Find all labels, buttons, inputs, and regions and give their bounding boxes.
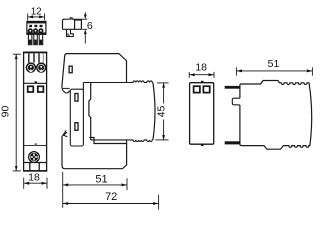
mid separation line [24,82,47,84]
svg-text:51: 51 [95,173,107,185]
front view outline [24,52,47,171]
dimension 6 line + arrows [84,12,86,15]
base top arm outline [62,54,127,87]
dimension 51 line + arrows [63,184,127,186]
dimension 72 right extension tick [158,195,160,210]
spine slot 1 [75,94,78,102]
top tick [201,81,204,83]
module top edge with ribs [83,81,152,83]
terminal slot bars [29,53,39,62]
dimension 18 (module) line + arrows [189,74,213,76]
svg-text:12: 12 [31,7,42,18]
bottom screw [29,152,40,163]
dimension 12 line [28,16,45,18]
svg-text:72: 72 [105,191,117,203]
dimension 51 right extension tick [126,178,128,190]
front screws (2) [26,62,36,72]
tick above mid line [35,81,37,83]
terminal screws (3) [28,28,33,33]
bottom band line [24,162,47,164]
dimension 12 extension ticks [27,14,29,21]
module front body [190,83,214,145]
dimension 18 line + arrows [24,182,47,184]
spine slot 2 [75,123,78,131]
base bottom arm outline [62,137,127,169]
svg-text:18: 18 [28,172,40,184]
svg-text:51: 51 [268,58,280,70]
terminal block body (top view) [27,21,46,34]
module outline (side, plugged) [89,83,91,140]
dimension 45 extension lines [157,82,169,84]
dimension 72 line + arrows [63,203,158,205]
spine panel [70,89,83,146]
svg-text:18: 18 [195,61,207,73]
tick above lower line [35,143,37,145]
dimension 45 line + arrows [163,83,165,104]
dimension 90 extension lines [13,53,21,55]
dimension 51 (bottom) shared left extension [62,172,64,208]
svg-text:90: 90 [0,106,12,118]
thick bottom edge [23,170,47,172]
terminal side leg [67,30,74,37]
bottom tick [201,144,204,146]
module curved right edge [153,83,155,140]
top DIN clip hook [62,86,70,93]
slot in top arm [69,66,72,73]
dimension 12 arrows [28,15,33,18]
svg-text:45: 45 [156,106,168,118]
bottom DIN clip hook [62,130,67,136]
module lock tab [232,98,240,105]
dimension 18 (module) ticks [188,72,190,78]
module pin bottom [225,141,240,144]
window squares (2) [28,86,34,92]
base step to spine [82,83,84,91]
module front windows (2) [194,86,200,92]
dimension 51 (module) ticks [235,67,237,75]
terminal side body [63,18,75,30]
terminal legs (3) [28,34,42,44]
dot between screws [35,66,36,68]
dimension 90 line [15,54,17,171]
dimension 6 extension lines [72,18,87,20]
leg tips dark fill [29,40,32,45]
base top arm bottom edge [62,87,69,89]
svg-text:6: 6 [87,20,93,32]
module bottom edge with ribs [91,140,153,142]
dimension 18 (front) extension ticks [23,178,25,189]
thick top edge [23,52,47,54]
terminal squares (3) [29,25,32,27]
module pin top [225,86,240,89]
module side body outline [240,81,312,150]
bottom band dividers [29,163,31,171]
lower thin line [24,144,47,146]
dimension 51 (module) line + arrows [237,70,313,72]
